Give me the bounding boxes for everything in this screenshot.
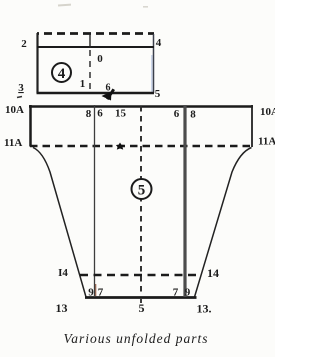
svg-text:9: 9 (185, 287, 191, 299)
part 4 fold line (37, 46, 155, 48)
part 5 left edge (29, 105, 32, 147)
svg-text:0: 0 (97, 53, 103, 65)
accent over A (17, 97, 22, 98)
svg-text:6: 6 (97, 108, 103, 120)
svg-text:5: 5 (138, 183, 146, 199)
svg-text:3: 3 (18, 82, 24, 94)
part 4 center crease dashed (89, 50, 91, 93)
right seam line thick (183, 105, 186, 297)
center crease dashed (140, 106, 142, 296)
knee fold dashed (80, 274, 198, 277)
svg-text:I4: I4 (58, 267, 68, 279)
part 4 left edge (36, 33, 38, 93)
waist star marker (116, 143, 124, 150)
circled 4 (52, 63, 71, 82)
center crease tick below hem (140, 299, 142, 303)
svg-text:2: 2 (21, 38, 27, 50)
svg-text:11A: 11A (4, 137, 22, 149)
part 4 center crease solid top (89, 34, 91, 49)
part 4 bottom edge (37, 92, 155, 95)
part 5 right hip curve and slant (195, 148, 252, 298)
part 5 right edge (251, 105, 253, 147)
svg-text:15: 15 (115, 108, 127, 120)
svg-text:13: 13 (56, 301, 68, 315)
part 5 waist fold dashed (30, 145, 252, 147)
part 5 bottom hem (85, 296, 197, 299)
svg-text:6: 6 (174, 108, 180, 120)
part 4 dashed top edge (37, 32, 154, 35)
svg-text:4: 4 (58, 66, 66, 82)
scan speck top 2 (143, 6, 148, 8)
notch arrow marker (102, 89, 116, 101)
svg-text:11A: 11A (258, 136, 275, 148)
svg-text:1: 1 (80, 78, 86, 90)
circled 5 (132, 179, 152, 199)
svg-text:Various unfolded parts: Various unfolded parts (63, 331, 208, 346)
svg-text:10A: 10A (5, 104, 24, 116)
svg-text:14: 14 (207, 266, 219, 280)
left seam line (94, 105, 96, 297)
svg-text:5: 5 (139, 301, 145, 315)
svg-text:13.: 13. (197, 302, 212, 316)
svg-text:8: 8 (190, 109, 196, 121)
part 4 right edge blue scan tint (151, 55, 153, 92)
svg-text:8: 8 (86, 108, 92, 120)
svg-text:4: 4 (156, 37, 162, 49)
scan speck top (58, 4, 71, 7)
svg-text:6: 6 (106, 83, 111, 94)
svg-text:10A: 10A (260, 106, 275, 118)
part 4 right edge (153, 34, 155, 93)
part 5 left hip curve and slant (33, 148, 86, 298)
svg-text:7: 7 (98, 287, 104, 299)
svg-text:9: 9 (88, 287, 94, 299)
part 5 top edge (29, 105, 253, 108)
left seam rust tint segment (95, 284, 97, 296)
svg-text:5: 5 (155, 88, 161, 100)
svg-text:7: 7 (173, 287, 179, 299)
